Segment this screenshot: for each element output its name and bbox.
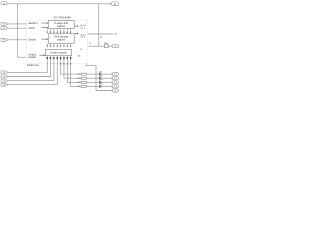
svg-text:out 2: out 2 [80, 36, 86, 39]
svg-text:enable: enable [28, 55, 36, 59]
svg-text:K1: K1 [3, 3, 5, 5]
svg-text:out 1: out 1 [80, 27, 86, 30]
svg-text:Clock: Clock [28, 26, 35, 30]
svg-text:O2: O2 [3, 76, 6, 78]
svg-text:10: 10 [80, 49, 82, 51]
svg-text:+5V: +5V [113, 34, 117, 36]
svg-text:R1: R1 [77, 74, 79, 76]
svg-text:15: 15 [89, 43, 91, 45]
svg-text:16: 16 [100, 37, 102, 39]
svg-text:LD1: LD1 [99, 71, 102, 73]
svg-text:CL: CL [3, 28, 5, 30]
svg-text:3-state outputs: 3-state outputs [50, 52, 67, 55]
svg-text:(9): (9) [78, 56, 81, 58]
svg-text:Serial in: Serial in [28, 21, 38, 25]
svg-text:O1: O1 [3, 72, 6, 74]
svg-text:P3: P3 [114, 82, 116, 84]
svg-text:Parallel out: Parallel out [27, 64, 39, 67]
svg-text:100n: 100n [104, 43, 108, 45]
svg-text:register: register [57, 25, 66, 28]
svg-text:P2: P2 [114, 78, 116, 80]
svg-text:O3: O3 [3, 80, 6, 82]
svg-text:Strobe: Strobe [28, 38, 36, 42]
svg-text:P4: P4 [114, 86, 116, 88]
svg-text:CD 74HC4094: CD 74HC4094 [53, 16, 71, 20]
svg-text:LD4: LD4 [99, 84, 102, 86]
svg-text:LD2: LD2 [99, 75, 102, 77]
svg-text:R2: R2 [77, 78, 79, 80]
svg-text:K2: K2 [114, 4, 116, 6]
svg-text:R3: R3 [77, 82, 79, 84]
svg-text:P1: P1 [114, 74, 116, 76]
svg-text:register: register [57, 39, 66, 42]
svg-text:O4: O4 [3, 85, 6, 87]
svg-text:LD3: LD3 [99, 80, 102, 82]
svg-text:R4: R4 [77, 86, 79, 88]
